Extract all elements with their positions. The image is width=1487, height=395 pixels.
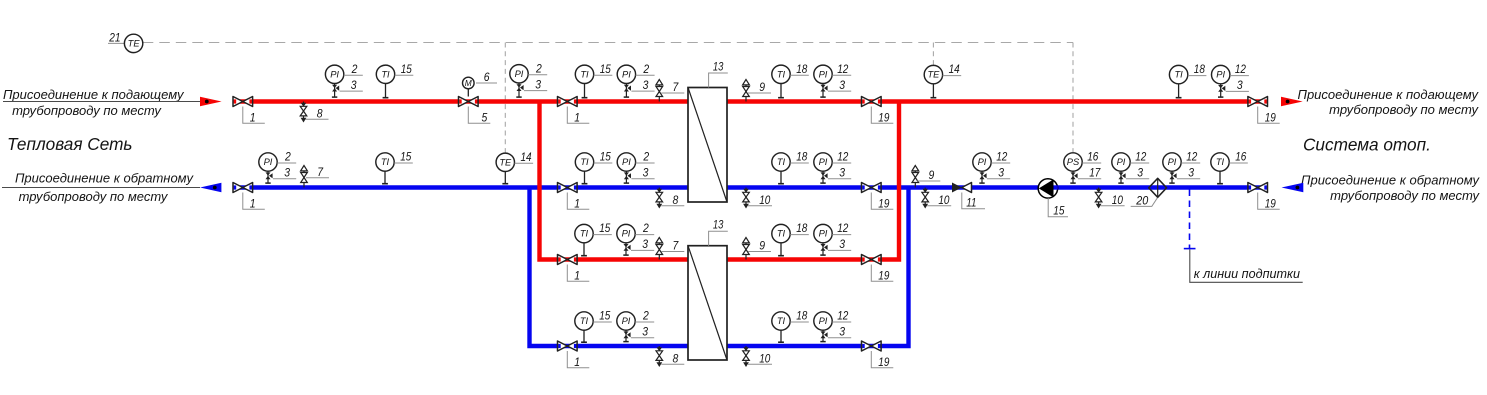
svg-text:к линии подпитки: к линии подпитки xyxy=(1194,267,1300,281)
svg-text:TI: TI xyxy=(381,69,390,79)
svg-text:Присоединение к обратному: Присоединение к обратному xyxy=(15,171,194,186)
thermometer TI return inlet xyxy=(1211,153,1229,171)
labels 12 3 xyxy=(828,221,851,251)
svg-text:18: 18 xyxy=(796,150,807,164)
heat exchanger 13 upper xyxy=(688,88,727,203)
svg-text:5: 5 xyxy=(482,111,488,125)
valve 19 HX1 supply out xyxy=(862,97,882,107)
labels 12 3 xyxy=(1226,62,1249,92)
svg-text:TE: TE xyxy=(927,70,940,80)
svg-text:2: 2 xyxy=(643,62,650,76)
left supply connection text line 1 xyxy=(3,87,185,102)
svg-text:7: 7 xyxy=(673,80,680,94)
label 7 xyxy=(661,80,684,94)
svg-text:1: 1 xyxy=(250,111,256,125)
svg-text:12: 12 xyxy=(1235,62,1246,76)
makeup line end tick xyxy=(1184,248,1196,250)
supply loop 2 pipe red xyxy=(540,102,900,260)
svg-text:2: 2 xyxy=(642,309,649,323)
gauge cock xyxy=(623,330,630,342)
label 14 xyxy=(515,150,534,164)
svg-text:16: 16 xyxy=(1087,150,1098,164)
svg-text:16: 16 xyxy=(1235,150,1246,164)
svg-text:3: 3 xyxy=(839,166,845,180)
pressure gauge PI return outlet xyxy=(259,153,277,171)
thermometer TI HX1 out xyxy=(772,65,790,83)
svg-text:12: 12 xyxy=(996,150,1007,164)
svg-text:15: 15 xyxy=(1053,204,1064,218)
pressure gauge PI return inlet xyxy=(1163,153,1181,171)
gauge cock xyxy=(1218,84,1225,98)
TI stem xyxy=(581,243,587,256)
pressure gauge PI pump in xyxy=(973,153,991,171)
heat exchanger 13 lower label 13 xyxy=(709,218,728,246)
svg-text:9: 9 xyxy=(759,80,765,94)
thermometer TI HX2 return xyxy=(575,312,593,330)
svg-text:PI: PI xyxy=(819,69,828,79)
labels 2 3 xyxy=(631,309,654,339)
svg-text:14: 14 xyxy=(521,150,532,164)
svg-text:PI: PI xyxy=(978,157,987,167)
heat exchanger 13 upper label 13 xyxy=(709,60,728,88)
label 19 leader xyxy=(871,193,893,211)
pressure gauge PI HX2 in xyxy=(617,224,635,242)
svg-text:12: 12 xyxy=(837,62,848,76)
svg-text:Присоединение к подающему: Присоединение к подающему xyxy=(1298,87,1480,102)
svg-text:10: 10 xyxy=(759,352,770,366)
gauge cock xyxy=(1070,171,1077,183)
valve 19 HX2 supply out xyxy=(862,255,882,265)
label 10 xyxy=(748,193,772,207)
labels 12 3 xyxy=(828,150,851,180)
pressure gauge PI HX2 return xyxy=(617,312,635,330)
svg-text:19: 19 xyxy=(878,111,889,125)
svg-text:6: 6 xyxy=(484,70,490,84)
air vent 9 HX1 supply xyxy=(743,80,750,102)
svg-text:15: 15 xyxy=(401,62,412,76)
svg-text:PI: PI xyxy=(515,69,524,79)
svg-text:3: 3 xyxy=(1237,78,1243,92)
svg-text:TI: TI xyxy=(580,316,589,326)
svg-text:TI: TI xyxy=(580,229,589,239)
drain valve 8 HX2 return xyxy=(656,346,663,367)
signal drop to PS xyxy=(1072,43,1074,153)
svg-text:PI: PI xyxy=(622,69,631,79)
TI stem xyxy=(778,330,784,342)
pressure gauge PI after valve xyxy=(510,65,528,83)
thermometer TI HX1 in xyxy=(575,65,593,83)
title Тепловая Сеть xyxy=(7,134,132,154)
valve 19 supply outlet xyxy=(1248,97,1268,107)
labels 16 17 xyxy=(1078,150,1101,180)
svg-text:TI: TI xyxy=(1216,157,1225,167)
svg-text:трубопроводу по месту: трубопроводу по месту xyxy=(12,103,162,118)
right return arrow xyxy=(1282,183,1304,193)
supply pipe main red xyxy=(233,99,1268,103)
svg-text:TI: TI xyxy=(580,157,589,167)
pressure gauge PI HX1 return out xyxy=(814,153,832,171)
svg-text:3: 3 xyxy=(643,78,649,92)
svg-text:PI: PI xyxy=(330,69,339,79)
label 7 xyxy=(661,239,684,253)
svg-text:3: 3 xyxy=(535,77,541,91)
left return arrow xyxy=(200,183,221,193)
label 15 xyxy=(593,309,612,323)
svg-text:18: 18 xyxy=(796,221,807,235)
svg-text:19: 19 xyxy=(878,269,889,283)
TE stem xyxy=(931,84,937,98)
svg-text:3: 3 xyxy=(839,78,845,92)
label 15 xyxy=(594,150,613,164)
gauge cock xyxy=(820,171,827,183)
svg-text:8: 8 xyxy=(673,352,679,366)
svg-text:PI: PI xyxy=(622,316,631,326)
svg-text:TE: TE xyxy=(499,157,512,167)
return loop 2 pipe blue xyxy=(530,188,909,347)
svg-text:TI: TI xyxy=(777,229,786,239)
label 9 xyxy=(748,80,771,94)
svg-text:15: 15 xyxy=(600,62,611,76)
svg-text:PI: PI xyxy=(264,157,273,167)
thermometer TI HX2 out xyxy=(772,224,790,242)
check valve 11 xyxy=(952,183,972,193)
svg-text:19: 19 xyxy=(878,355,889,369)
left return connection text line 1 xyxy=(15,171,194,186)
pressure gauge PI before strainer xyxy=(1112,153,1130,171)
svg-text:15: 15 xyxy=(600,150,611,164)
svg-text:TI: TI xyxy=(381,157,390,167)
svg-text:11: 11 xyxy=(966,196,976,210)
air vent 9 return header xyxy=(912,166,919,188)
pressure gauge PI HX1 return xyxy=(617,153,635,171)
left return connection text line 2 xyxy=(19,189,169,204)
pressure gauge PI HX1 in xyxy=(617,65,635,83)
label 20 leader xyxy=(1131,193,1158,207)
signal bus dashed line xyxy=(143,42,1073,44)
gauge cock xyxy=(820,243,827,256)
svg-text:2: 2 xyxy=(284,150,291,164)
drain valve 10 HX1 return xyxy=(743,188,750,209)
label 19 leader xyxy=(871,107,893,125)
right supply arrow xyxy=(1281,97,1303,107)
svg-text:Присоединение к обратному: Присоединение к обратному xyxy=(1301,172,1480,187)
svg-text:3: 3 xyxy=(642,237,648,251)
svg-text:20: 20 xyxy=(1135,193,1148,207)
svg-text:3: 3 xyxy=(1137,166,1143,180)
TI stem xyxy=(778,243,784,256)
svg-text:PI: PI xyxy=(819,157,828,167)
gauge cock xyxy=(332,84,339,98)
svg-text:3: 3 xyxy=(643,166,649,180)
gauge cock xyxy=(1169,171,1176,183)
svg-text:PI: PI xyxy=(1117,157,1126,167)
right supply connection text line 1 xyxy=(1298,87,1480,102)
label 9 xyxy=(748,239,771,253)
svg-text:18: 18 xyxy=(1194,62,1205,76)
air vent 9 HX2 supply xyxy=(743,238,750,260)
svg-text:12: 12 xyxy=(837,309,848,323)
svg-text:15: 15 xyxy=(599,221,610,235)
label 1 leader xyxy=(567,193,589,211)
gauge cock xyxy=(265,171,272,183)
label 14 xyxy=(943,62,962,76)
svg-text:7: 7 xyxy=(317,165,324,179)
TI stem xyxy=(778,84,784,98)
gauge cock xyxy=(1118,171,1125,183)
svg-text:трубопроводу по месту: трубопроводу по месту xyxy=(1330,188,1480,203)
gauge cock xyxy=(820,84,827,98)
svg-text:15: 15 xyxy=(400,150,411,164)
valve 1 return outlet xyxy=(233,183,253,193)
right return connection text line 2 xyxy=(1330,188,1480,203)
svg-text:трубопроводу по месту: трубопроводу по месту xyxy=(1329,102,1479,117)
svg-text:8: 8 xyxy=(317,107,323,121)
label 6 xyxy=(476,70,497,84)
valve 1 HX2 supply xyxy=(558,255,578,265)
svg-text:2: 2 xyxy=(643,150,650,164)
labels 2 3 xyxy=(631,62,654,92)
labels 2 3 xyxy=(340,62,363,92)
labels 12 3 xyxy=(987,150,1010,180)
air vent 7 return xyxy=(301,166,308,188)
svg-text:18: 18 xyxy=(796,309,807,323)
TE stem xyxy=(502,172,508,184)
svg-text:3: 3 xyxy=(839,237,845,251)
labels 2 3 xyxy=(273,150,296,180)
pressure gauge PI supply inlet xyxy=(325,65,343,83)
temperature sensor TE supply xyxy=(924,65,942,83)
svg-text:12: 12 xyxy=(1135,150,1146,164)
svg-text:10: 10 xyxy=(1112,193,1123,207)
label 18 xyxy=(1188,62,1207,76)
return pipe main blue xyxy=(233,185,1268,189)
gauge cock xyxy=(623,243,630,256)
svg-text:12: 12 xyxy=(837,221,848,235)
TI stem xyxy=(1176,84,1182,98)
thermometer TI return outlet xyxy=(376,153,394,171)
thermometer TI HX2 in xyxy=(575,224,593,242)
svg-text:1: 1 xyxy=(250,197,256,211)
svg-text:Система отоп.: Система отоп. xyxy=(1303,135,1431,155)
drain valve 10 return header xyxy=(922,188,929,209)
label 15 leader xyxy=(1048,198,1068,218)
gauge cock xyxy=(624,171,631,183)
svg-text:2: 2 xyxy=(351,62,358,76)
valve 19 HX2 return out xyxy=(862,341,882,351)
label 15 xyxy=(394,150,413,164)
svg-text:1: 1 xyxy=(574,355,580,369)
svg-text:TI: TI xyxy=(1174,70,1183,80)
svg-text:9: 9 xyxy=(929,168,935,182)
svg-text:2: 2 xyxy=(535,61,542,75)
TI stem xyxy=(582,84,588,98)
thermometer TI supply inlet xyxy=(376,65,394,83)
thermometer TI HX1 return xyxy=(575,153,593,171)
label 1 leader xyxy=(567,351,589,369)
label 1 leader xyxy=(243,107,265,125)
label 21 xyxy=(108,31,125,45)
svg-text:3: 3 xyxy=(284,166,290,180)
TI stem xyxy=(1217,171,1223,184)
labels 2 3 xyxy=(524,61,547,91)
pressure gauge PI HX2 return out xyxy=(814,312,832,330)
svg-text:3: 3 xyxy=(351,78,357,92)
motorized control valve 5 xyxy=(459,97,479,107)
svg-text:15: 15 xyxy=(599,309,610,323)
svg-text:9: 9 xyxy=(759,239,765,253)
pressure gauge PI supply outlet xyxy=(1212,65,1230,83)
svg-text:3: 3 xyxy=(998,166,1004,180)
svg-text:PI: PI xyxy=(819,316,828,326)
right supply connection text line 2 xyxy=(1329,102,1479,117)
drain valve 10 after pump xyxy=(1095,188,1102,209)
svg-text:PI: PI xyxy=(622,229,631,239)
valve 1 HX2 return xyxy=(558,341,578,351)
svg-text:19: 19 xyxy=(1265,111,1276,125)
gauge cock xyxy=(516,83,523,97)
label 10 xyxy=(927,193,951,207)
label 8 xyxy=(306,107,329,121)
svg-text:3: 3 xyxy=(1188,166,1194,180)
left return leader line xyxy=(2,187,200,189)
labels 2 3 xyxy=(631,221,654,251)
valve 1 HX1 supply xyxy=(558,97,578,107)
left supply arrow xyxy=(200,97,222,107)
label 18 xyxy=(790,150,809,164)
TI stem xyxy=(383,84,389,98)
svg-text:19: 19 xyxy=(1265,197,1276,211)
svg-text:1: 1 xyxy=(574,111,580,125)
svg-text:14: 14 xyxy=(949,62,960,76)
labels 12 3 xyxy=(1126,150,1149,180)
label 8 xyxy=(661,193,684,207)
svg-text:M: M xyxy=(465,78,472,88)
svg-text:2: 2 xyxy=(642,221,649,235)
label 10 xyxy=(1101,193,1125,207)
TI stem xyxy=(582,171,588,184)
label 19 leader xyxy=(871,351,893,369)
label 5 leader xyxy=(468,107,490,125)
gauge cock xyxy=(979,171,986,183)
right return connection text line 1 xyxy=(1301,172,1480,187)
makeup label text xyxy=(1194,267,1300,281)
label 1 leader xyxy=(567,107,589,125)
labels 12 3 xyxy=(828,62,851,92)
thermometer TI HX2 return out xyxy=(772,312,790,330)
TI stem xyxy=(778,171,784,184)
svg-text:19: 19 xyxy=(878,197,889,211)
valve 19 return inlet xyxy=(1248,183,1268,193)
svg-text:TI: TI xyxy=(580,69,589,79)
strainer 20 xyxy=(1149,178,1167,197)
drain valve 10 HX2 return xyxy=(743,346,750,367)
gauge cock xyxy=(820,330,827,342)
label 1 leader xyxy=(243,193,265,211)
valve 19 HX1 return out xyxy=(862,183,882,193)
signal drop to TE 14 return xyxy=(504,43,506,153)
svg-text:TI: TI xyxy=(777,157,786,167)
title Система отоп. xyxy=(1303,135,1431,155)
label 11 leader xyxy=(962,193,985,210)
pressure gauge PI HX1 out xyxy=(814,65,832,83)
label 15 xyxy=(593,221,612,235)
label 18 xyxy=(790,221,809,235)
svg-text:10: 10 xyxy=(938,193,949,207)
thermometer TI HX1 return out xyxy=(772,153,790,171)
labels 12 3 xyxy=(828,309,851,339)
pressure gauge PI HX2 out xyxy=(814,224,832,242)
labels 2 3 xyxy=(631,150,654,180)
label 15 xyxy=(594,62,613,76)
label 1 leader xyxy=(567,265,589,283)
label 18 xyxy=(790,309,809,323)
svg-text:13: 13 xyxy=(713,218,724,232)
svg-text:PI: PI xyxy=(1168,157,1177,167)
svg-text:10: 10 xyxy=(759,193,770,207)
air vent 7 HX1 supply xyxy=(656,80,663,102)
svg-text:1: 1 xyxy=(574,197,580,211)
air vent 7 HX2 supply xyxy=(656,238,663,260)
svg-text:трубопроводу по месту: трубопроводу по месту xyxy=(19,189,169,204)
svg-text:13: 13 xyxy=(713,60,724,74)
svg-text:8: 8 xyxy=(673,193,679,207)
left supply connection text line 2 xyxy=(12,103,162,118)
pump 15 xyxy=(1038,179,1058,198)
outdoor temperature sensor TE 21 xyxy=(124,34,142,52)
label 10 xyxy=(748,352,772,366)
heat exchanger 13 lower xyxy=(688,246,727,360)
motor actuator M xyxy=(463,77,475,96)
TI stem xyxy=(581,330,587,342)
svg-text:3: 3 xyxy=(839,325,845,339)
label 16 xyxy=(1229,150,1248,164)
gauge cock xyxy=(624,84,631,98)
makeup label leader xyxy=(1190,250,1303,283)
labels 12 3 xyxy=(1177,150,1200,180)
label 19 leader xyxy=(1258,193,1280,211)
pressure switch PS xyxy=(1064,153,1082,171)
makeup line dashed blue xyxy=(1189,190,1191,249)
svg-text:Присоединение к подающему: Присоединение к подающему xyxy=(3,87,185,102)
label 8 xyxy=(661,352,684,366)
svg-text:PI: PI xyxy=(622,157,631,167)
label 9 xyxy=(917,168,940,182)
svg-text:12: 12 xyxy=(837,150,848,164)
svg-text:21: 21 xyxy=(108,31,120,45)
svg-text:PI: PI xyxy=(1216,70,1225,80)
svg-text:TE: TE xyxy=(128,39,141,49)
svg-text:PI: PI xyxy=(819,229,828,239)
svg-text:12: 12 xyxy=(1186,150,1197,164)
svg-text:PS: PS xyxy=(1067,157,1080,167)
valve 1 HX1 return xyxy=(558,183,578,193)
label 18 xyxy=(790,62,809,76)
label 19 leader xyxy=(1258,107,1280,125)
label 19 leader xyxy=(871,265,893,283)
label 15 xyxy=(395,62,414,76)
valve 1 supply inlet xyxy=(233,97,253,107)
left supply leader line xyxy=(3,101,200,103)
signal drop to TE 14 supply xyxy=(932,43,934,65)
svg-text:Тепловая Сеть: Тепловая Сеть xyxy=(7,134,132,154)
label 7 xyxy=(306,165,329,179)
TI stem xyxy=(382,171,388,184)
svg-text:7: 7 xyxy=(673,239,680,253)
temperature sensor TE return xyxy=(496,153,514,171)
svg-text:17: 17 xyxy=(1089,166,1101,180)
drain valve 8 supply xyxy=(300,102,307,123)
svg-text:TI: TI xyxy=(777,316,786,326)
